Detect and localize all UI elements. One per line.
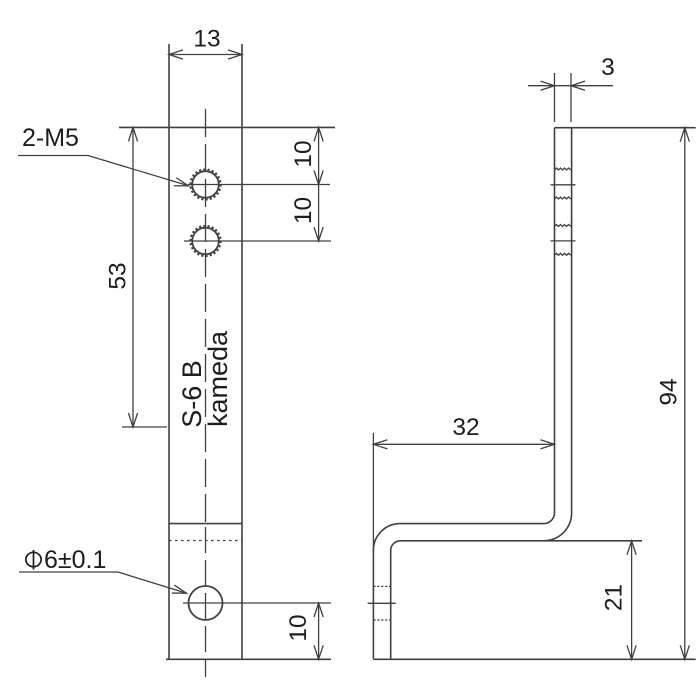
svg-text:53: 53 [105, 262, 132, 289]
svg-text:kameda: kameda [203, 330, 233, 427]
hole3 side centerline [368, 602, 396, 604]
hole phi6 circle [189, 586, 223, 620]
dim 32 extension line left [372, 433, 374, 551]
leader phi6 arrow [172, 585, 188, 597]
hole2 side centerline [551, 240, 576, 242]
side bottom edge with extension [373, 658, 695, 660]
thread zigzag line 3 [555, 225, 572, 227]
vertical centerline (chain) upper [205, 109, 207, 524]
thread zigzag line 4 [555, 253, 572, 255]
svg-text:32: 32 [452, 414, 479, 441]
dim 10 (top) line [318, 127, 320, 184]
dim 10 (second) line [318, 185, 320, 242]
hole M5 upper centerline horizontal [188, 184, 330, 186]
leader 2-M5 line [18, 156, 189, 186]
dim 32 line [373, 443, 554, 445]
dim 10 (bottom) line [318, 603, 320, 659]
dim 53 line [132, 127, 134, 427]
hidden hole line bottom (side, dotted) [373, 619, 390, 621]
hole1 side centerline [551, 184, 576, 186]
bar top edge with extensions [119, 126, 335, 128]
label phi6 +-0.1 : phi drawn as circle+bar [26, 550, 41, 570]
dim 53 bottom extension line [122, 426, 167, 428]
leader phi6 line [19, 572, 187, 593]
hole M5 lower circle [192, 228, 219, 255]
bar left edge (also extension for dim 13) [168, 44, 170, 659]
vertical centerline lower [205, 527, 207, 677]
svg-text:6±0.1: 6±0.1 [44, 546, 106, 574]
svg-text:21: 21 [601, 584, 628, 611]
dim 3 line with outside arrows [528, 85, 613, 87]
hidden hole line top (side, dotted) [373, 585, 390, 587]
dim 13 line [169, 54, 242, 56]
svg-text:2-M5: 2-M5 [22, 124, 79, 152]
dim 21 line [631, 541, 633, 660]
bar right edge (also extension for dim 13) [241, 44, 243, 659]
svg-text:94: 94 [656, 378, 683, 405]
dim 13 right arrow [228, 50, 242, 59]
bar bottom edge with extension [166, 658, 331, 660]
bend line solid [169, 523, 242, 525]
svg-text:3: 3 [601, 54, 615, 81]
svg-text:10: 10 [290, 197, 317, 224]
side top edge with extension [555, 127, 696, 129]
side outline path [373, 128, 571, 660]
dim 53 bottom arrow [128, 413, 137, 427]
leader 2-M5 arrow [174, 178, 190, 190]
horizontal run bottom edge with extension for dim 21 [400, 540, 642, 542]
dim 94 line [684, 128, 686, 660]
thread zigzag line 2 [555, 197, 572, 199]
svg-text:10: 10 [290, 140, 317, 167]
thread zigzag line 1 [555, 168, 572, 170]
bend line dotted [169, 540, 242, 542]
hole M5 lower centerline horizontal [184, 240, 331, 242]
svg-text:13: 13 [193, 26, 220, 53]
hole M5 upper circle [192, 171, 219, 198]
hole M5 lower thread dashed circle [190, 226, 220, 256]
svg-text:10: 10 [285, 614, 312, 641]
hole M5 upper thread dashed circle [190, 169, 220, 199]
dim 53 top arrow [128, 127, 137, 141]
dim 13 left arrow [169, 50, 183, 59]
hole phi6 centerline horizontal [183, 602, 331, 604]
dim 3 extension lines [554, 73, 556, 122]
